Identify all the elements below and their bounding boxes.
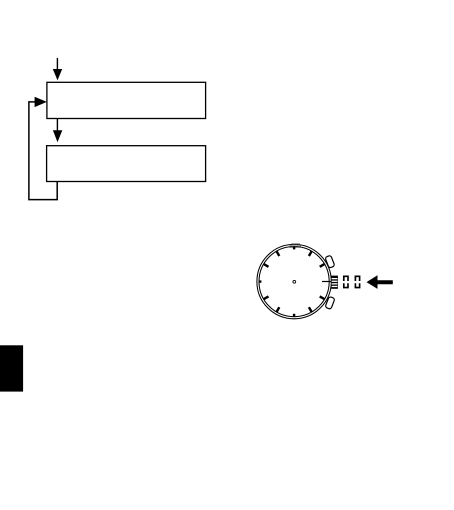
down arrow between box 1 and box 2 — [53, 119, 62, 143]
flowchart box 1 — [47, 82, 206, 118]
watch case outer circle — [257, 244, 331, 318]
hour tick 2 — [320, 264, 325, 267]
crown (ribbed) — [331, 276, 338, 289]
hour tick 5 — [309, 307, 312, 312]
feedback loop arrowhead into box 1 — [35, 97, 47, 107]
hour tick 7 — [277, 307, 280, 312]
hour tick 8 — [264, 296, 269, 299]
crown stem line at 3 o'clock — [322, 281, 331, 283]
feedback loop wire — [29, 102, 57, 200]
hour tick 11 — [277, 251, 280, 256]
hour tick 1 — [309, 251, 312, 256]
center pivot dot — [293, 280, 296, 283]
down arrow into box 1 — [53, 58, 62, 80]
hour tick 6 — [293, 314, 295, 317]
crown position 1 outline — [344, 276, 348, 287]
crown position 2 outline — [355, 276, 359, 287]
hour tick 4 — [320, 296, 325, 299]
pusher A at 2 o'clock — [325, 255, 335, 268]
watch case inner circle — [259, 247, 329, 317]
hour tick 9 — [259, 280, 262, 282]
hour tick 12 — [293, 247, 295, 250]
pusher B at 4 o'clock — [325, 296, 335, 309]
black index tab on page edge — [0, 345, 23, 391]
case rim arcs through notch — [289, 243, 302, 246]
hour tick 10 — [264, 264, 269, 267]
flowchart box 2 — [47, 146, 206, 182]
case notch at 12 o'clock — [290, 244, 301, 248]
black arrow pointing left — [367, 275, 393, 289]
